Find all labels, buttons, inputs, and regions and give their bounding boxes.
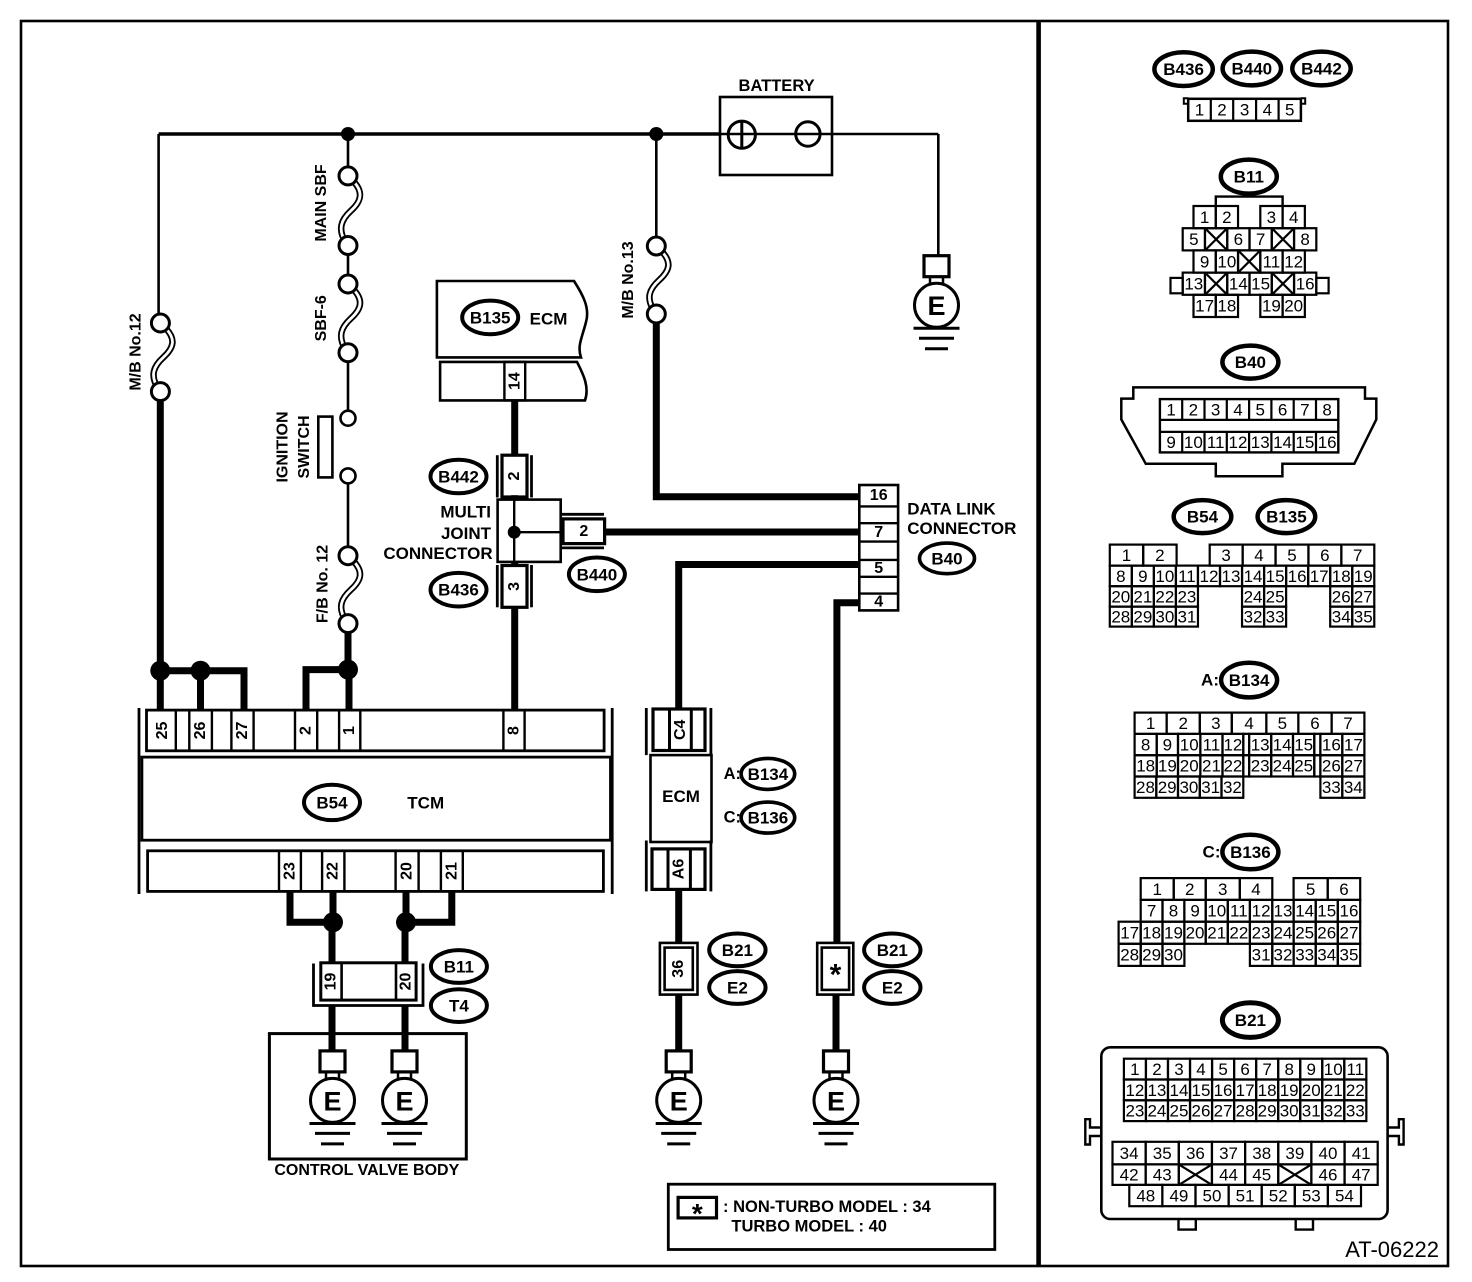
- svg-text:1: 1: [1195, 101, 1204, 120]
- svg-text:1: 1: [1130, 1060, 1139, 1079]
- svg-text:14: 14: [1273, 433, 1292, 452]
- svg-text:28: 28: [1111, 608, 1130, 627]
- svg-text:2: 2: [1155, 546, 1164, 565]
- svg-text:21: 21: [443, 862, 460, 880]
- svg-text:26: 26: [1332, 587, 1351, 606]
- svg-text:5: 5: [1278, 714, 1287, 733]
- svg-text:17: 17: [1195, 297, 1214, 316]
- svg-text:4: 4: [1289, 208, 1298, 227]
- svg-text:26: 26: [1317, 924, 1336, 943]
- svg-text:31: 31: [1252, 946, 1271, 965]
- svg-text:54: 54: [1335, 1186, 1354, 1205]
- svg-text:6: 6: [1339, 880, 1348, 899]
- svg-text:3: 3: [1221, 546, 1230, 565]
- svg-text:12: 12: [1223, 735, 1242, 754]
- svg-text:19: 19: [1280, 1081, 1299, 1100]
- svg-text:ECM: ECM: [530, 309, 568, 328]
- svg-text:8: 8: [1141, 735, 1150, 754]
- svg-text:SBF-6: SBF-6: [313, 295, 330, 341]
- svg-text:25: 25: [1294, 757, 1313, 776]
- svg-text:9: 9: [1138, 567, 1147, 586]
- svg-text:7: 7: [1262, 1060, 1271, 1079]
- svg-text:10: 10: [1217, 252, 1236, 271]
- svg-text:2: 2: [298, 726, 315, 735]
- svg-text:C4: C4: [672, 719, 689, 740]
- svg-text:1: 1: [1122, 546, 1131, 565]
- svg-text:5: 5: [1306, 880, 1315, 899]
- svg-text:26: 26: [1322, 757, 1341, 776]
- svg-text:E: E: [323, 1086, 341, 1116]
- svg-text:16: 16: [1318, 433, 1337, 452]
- svg-text:B136: B136: [748, 809, 789, 828]
- svg-text:2: 2: [1178, 714, 1187, 733]
- svg-text:35: 35: [1153, 1144, 1172, 1163]
- svg-text:1: 1: [341, 726, 358, 735]
- svg-text:19: 19: [1164, 924, 1183, 943]
- svg-text:17: 17: [1236, 1081, 1255, 1100]
- svg-text:19: 19: [323, 973, 340, 991]
- svg-text:30: 30: [1280, 1102, 1299, 1121]
- svg-text:7: 7: [1300, 400, 1309, 419]
- svg-text:14: 14: [506, 372, 523, 390]
- svg-text:13: 13: [1222, 567, 1241, 586]
- svg-text:20: 20: [1302, 1081, 1321, 1100]
- svg-text:29: 29: [1142, 946, 1161, 965]
- svg-text:B21: B21: [722, 941, 753, 960]
- svg-text:E2: E2: [882, 979, 903, 998]
- svg-text:8: 8: [1284, 1060, 1293, 1079]
- svg-text:T4: T4: [449, 997, 469, 1016]
- svg-text:20: 20: [399, 862, 416, 880]
- svg-text:5: 5: [1189, 230, 1198, 249]
- svg-text:B440: B440: [577, 565, 618, 584]
- svg-text:8: 8: [506, 726, 523, 735]
- svg-text:IGNITION: IGNITION: [275, 411, 292, 482]
- svg-text:18: 18: [1136, 757, 1155, 776]
- svg-text:19: 19: [1158, 757, 1177, 776]
- svg-text:4: 4: [1254, 546, 1263, 565]
- svg-text:32: 32: [1223, 778, 1242, 797]
- svg-text:9: 9: [1166, 433, 1175, 452]
- svg-text:14: 14: [1273, 735, 1292, 754]
- svg-text:CONNECTOR: CONNECTOR: [383, 544, 492, 563]
- svg-text:20: 20: [1284, 297, 1303, 316]
- svg-text:ECM: ECM: [662, 787, 700, 806]
- svg-text:9: 9: [1190, 902, 1199, 921]
- svg-text:36: 36: [670, 960, 687, 978]
- svg-text:20: 20: [1186, 924, 1205, 943]
- svg-text:2: 2: [579, 523, 588, 540]
- svg-text:E: E: [670, 1086, 688, 1116]
- svg-text:14: 14: [1170, 1081, 1189, 1100]
- svg-text:33: 33: [1322, 778, 1341, 797]
- svg-text:53: 53: [1302, 1186, 1321, 1205]
- svg-text:E: E: [927, 291, 945, 321]
- svg-text:2: 2: [1222, 208, 1231, 227]
- svg-text:17: 17: [1310, 567, 1329, 586]
- svg-text:4: 4: [1263, 101, 1272, 120]
- svg-text:15: 15: [1266, 567, 1285, 586]
- svg-text:20: 20: [1180, 757, 1199, 776]
- svg-text:1: 1: [1166, 400, 1175, 419]
- svg-text:B135: B135: [470, 308, 511, 327]
- svg-text:B54: B54: [1187, 508, 1219, 527]
- svg-text:9: 9: [1200, 252, 1209, 271]
- svg-text:47: 47: [1352, 1166, 1371, 1185]
- svg-text:18: 18: [1217, 297, 1236, 316]
- svg-text:30: 30: [1179, 778, 1198, 797]
- svg-text:13: 13: [1251, 433, 1270, 452]
- svg-text:24: 24: [1147, 1102, 1166, 1121]
- svg-text:31: 31: [1201, 778, 1220, 797]
- svg-text:7: 7: [1353, 546, 1362, 565]
- svg-text:16: 16: [1340, 902, 1359, 921]
- svg-text:36: 36: [1186, 1144, 1205, 1163]
- svg-text:24: 24: [1273, 924, 1292, 943]
- svg-text:29: 29: [1158, 778, 1177, 797]
- svg-text:9: 9: [1306, 1060, 1315, 1079]
- svg-text:7: 7: [874, 524, 883, 541]
- svg-text:25: 25: [1295, 924, 1314, 943]
- svg-text:6: 6: [1278, 400, 1287, 419]
- svg-text:24: 24: [1273, 757, 1292, 776]
- svg-text:27: 27: [1344, 757, 1363, 776]
- svg-text:40: 40: [1319, 1144, 1338, 1163]
- svg-text:25: 25: [1170, 1102, 1189, 1121]
- svg-text:13: 13: [1147, 1081, 1166, 1100]
- svg-text:13: 13: [1251, 735, 1270, 754]
- svg-text:27: 27: [234, 722, 251, 740]
- svg-text:28: 28: [1136, 778, 1155, 797]
- svg-text:51: 51: [1236, 1186, 1255, 1205]
- svg-text:11: 11: [1203, 735, 1221, 754]
- svg-text:45: 45: [1252, 1166, 1271, 1185]
- svg-text:12: 12: [1252, 902, 1271, 921]
- svg-text:43: 43: [1153, 1166, 1172, 1185]
- svg-text:4: 4: [1251, 880, 1260, 899]
- svg-text:16: 16: [1322, 735, 1341, 754]
- svg-text:6: 6: [1234, 230, 1243, 249]
- svg-text:10: 10: [1207, 902, 1226, 921]
- svg-text:3: 3: [506, 582, 523, 591]
- svg-text:4: 4: [874, 594, 883, 611]
- svg-text:11: 11: [1230, 902, 1248, 921]
- svg-text:27: 27: [1340, 924, 1359, 943]
- svg-text:12: 12: [1284, 252, 1303, 271]
- svg-text:44: 44: [1219, 1166, 1238, 1185]
- svg-text:B11: B11: [444, 958, 474, 977]
- svg-text:A:: A:: [724, 765, 741, 783]
- svg-text:F/B No. 12: F/B No. 12: [314, 545, 331, 623]
- svg-text:B136: B136: [1230, 843, 1271, 862]
- svg-text:21: 21: [1324, 1081, 1343, 1100]
- svg-text:B40: B40: [931, 549, 962, 568]
- svg-text:15: 15: [1251, 275, 1270, 294]
- svg-text:E: E: [395, 1086, 413, 1116]
- svg-text:32: 32: [1244, 608, 1263, 627]
- svg-text:35: 35: [1340, 946, 1359, 965]
- svg-text:48: 48: [1136, 1186, 1155, 1205]
- svg-text:15: 15: [1294, 735, 1313, 754]
- svg-text:A:: A:: [1201, 671, 1219, 690]
- svg-text:1: 1: [1200, 208, 1209, 227]
- svg-text:B135: B135: [1266, 508, 1307, 527]
- svg-text:: NON-TURBO MODEL : 34: : NON-TURBO MODEL : 34: [723, 1198, 932, 1216]
- svg-text:34: 34: [1332, 608, 1351, 627]
- svg-text:22: 22: [1346, 1081, 1365, 1100]
- svg-text:35: 35: [1354, 608, 1373, 627]
- svg-text:14: 14: [1229, 275, 1248, 294]
- svg-text:*: *: [692, 1198, 703, 1229]
- svg-text:B11: B11: [1234, 168, 1264, 187]
- svg-text:17: 17: [1120, 924, 1139, 943]
- svg-text:15: 15: [1295, 433, 1314, 452]
- svg-text:AT-06222: AT-06222: [1345, 1237, 1439, 1262]
- svg-text:22: 22: [325, 862, 342, 880]
- svg-text:E: E: [827, 1086, 845, 1116]
- svg-text:8: 8: [1169, 902, 1178, 921]
- svg-text:B134: B134: [748, 765, 789, 784]
- svg-text:24: 24: [1244, 587, 1263, 606]
- svg-text:5: 5: [1287, 546, 1296, 565]
- svg-text:15: 15: [1192, 1081, 1211, 1100]
- svg-text:1: 1: [1152, 880, 1161, 899]
- svg-text:32: 32: [1273, 946, 1292, 965]
- svg-text:49: 49: [1169, 1186, 1188, 1205]
- svg-text:28: 28: [1120, 946, 1139, 965]
- svg-text:MAIN SBF: MAIN SBF: [313, 164, 330, 242]
- svg-text:11: 11: [1207, 433, 1225, 452]
- svg-text:22: 22: [1229, 924, 1248, 943]
- svg-text:5: 5: [1256, 400, 1265, 419]
- svg-text:10: 10: [1324, 1060, 1343, 1079]
- svg-text:3: 3: [1267, 208, 1276, 227]
- svg-text:13: 13: [1273, 902, 1292, 921]
- svg-text:DATA LINK: DATA LINK: [907, 499, 996, 518]
- svg-text:19: 19: [1262, 297, 1281, 316]
- svg-text:10: 10: [1155, 567, 1174, 586]
- svg-text:C:: C:: [724, 809, 741, 827]
- svg-text:4: 4: [1196, 1060, 1205, 1079]
- svg-text:3: 3: [1218, 880, 1227, 899]
- svg-text:18: 18: [1142, 924, 1161, 943]
- svg-text:26: 26: [1192, 1102, 1211, 1121]
- svg-text:39: 39: [1285, 1144, 1304, 1163]
- svg-text:3: 3: [1211, 714, 1220, 733]
- svg-text:M/B No.12: M/B No.12: [127, 313, 144, 390]
- svg-text:31: 31: [1302, 1102, 1321, 1121]
- svg-text:E2: E2: [727, 979, 748, 998]
- svg-text:2: 2: [506, 471, 523, 480]
- svg-text:23: 23: [1125, 1102, 1144, 1121]
- svg-text:7: 7: [1147, 902, 1156, 921]
- svg-text:TURBO MODEL : 40: TURBO MODEL : 40: [731, 1217, 887, 1235]
- svg-text:8: 8: [1322, 400, 1331, 419]
- svg-text:B40: B40: [1235, 353, 1266, 372]
- svg-text:11: 11: [1263, 252, 1281, 271]
- svg-text:C:: C:: [1203, 843, 1221, 862]
- svg-text:10: 10: [1180, 735, 1199, 754]
- svg-text:18: 18: [1332, 567, 1351, 586]
- svg-text:16: 16: [1214, 1081, 1233, 1100]
- svg-text:B21: B21: [1235, 1011, 1266, 1030]
- svg-text:14: 14: [1295, 902, 1314, 921]
- svg-text:12: 12: [1125, 1081, 1144, 1100]
- svg-text:41: 41: [1352, 1144, 1371, 1163]
- svg-text:17: 17: [1344, 735, 1363, 754]
- svg-text:23: 23: [1177, 587, 1196, 606]
- svg-text:2: 2: [1185, 880, 1194, 899]
- svg-text:20: 20: [398, 973, 415, 991]
- svg-text:50: 50: [1203, 1186, 1222, 1205]
- svg-text:32: 32: [1324, 1102, 1343, 1121]
- svg-text:JOINT: JOINT: [441, 524, 492, 543]
- svg-text:2: 2: [1217, 101, 1226, 120]
- svg-text:2: 2: [1152, 1060, 1161, 1079]
- svg-text:12: 12: [1199, 567, 1218, 586]
- svg-text:5: 5: [874, 560, 883, 577]
- svg-text:3: 3: [1174, 1060, 1183, 1079]
- svg-text:38: 38: [1252, 1144, 1271, 1163]
- svg-text:8: 8: [1116, 567, 1125, 586]
- svg-text:25: 25: [1266, 587, 1285, 606]
- svg-text:21: 21: [1133, 587, 1152, 606]
- svg-text:M/B No.13: M/B No.13: [620, 241, 637, 318]
- svg-text:SWITCH: SWITCH: [296, 415, 313, 478]
- svg-text:6: 6: [1240, 1060, 1249, 1079]
- svg-text:46: 46: [1319, 1166, 1338, 1185]
- svg-text:16: 16: [870, 487, 888, 504]
- svg-text:CONTROL VALVE BODY: CONTROL VALVE BODY: [274, 1162, 459, 1179]
- svg-text:11: 11: [1178, 567, 1196, 586]
- svg-text:21: 21: [1202, 757, 1221, 776]
- svg-text:12: 12: [1228, 433, 1247, 452]
- svg-text:30: 30: [1155, 608, 1174, 627]
- svg-text:23: 23: [1252, 924, 1271, 943]
- svg-text:19: 19: [1354, 567, 1373, 586]
- svg-text:11: 11: [1346, 1060, 1364, 1079]
- svg-text:13: 13: [1184, 275, 1203, 294]
- svg-text:8: 8: [1300, 230, 1309, 249]
- svg-text:16: 16: [1296, 275, 1315, 294]
- svg-text:2: 2: [1189, 400, 1198, 419]
- svg-text:30: 30: [1164, 946, 1183, 965]
- svg-text:5: 5: [1218, 1060, 1227, 1079]
- svg-text:28: 28: [1236, 1102, 1255, 1121]
- svg-text:TCM: TCM: [407, 794, 444, 813]
- svg-text:14: 14: [1244, 567, 1263, 586]
- svg-text:37: 37: [1219, 1144, 1238, 1163]
- svg-text:B440: B440: [1231, 60, 1272, 79]
- svg-text:4: 4: [1233, 400, 1242, 419]
- svg-text:1: 1: [1146, 714, 1155, 733]
- svg-text:B54: B54: [316, 793, 348, 812]
- svg-text:29: 29: [1133, 608, 1152, 627]
- svg-text:23: 23: [1251, 757, 1270, 776]
- svg-text:33: 33: [1295, 946, 1314, 965]
- svg-text:16: 16: [1288, 567, 1307, 586]
- svg-text:B442: B442: [1301, 60, 1342, 79]
- svg-text:26: 26: [192, 722, 209, 740]
- svg-text:B442: B442: [438, 468, 479, 487]
- svg-text:21: 21: [1207, 924, 1226, 943]
- svg-text:22: 22: [1155, 587, 1174, 606]
- svg-text:3: 3: [1211, 400, 1220, 419]
- svg-text:52: 52: [1269, 1186, 1288, 1205]
- svg-text:6: 6: [1320, 546, 1329, 565]
- svg-text:10: 10: [1184, 433, 1203, 452]
- svg-text:B436: B436: [438, 581, 479, 600]
- svg-text:34: 34: [1120, 1144, 1139, 1163]
- svg-text:15: 15: [1317, 902, 1336, 921]
- svg-text:*: *: [830, 958, 842, 991]
- svg-text:23: 23: [282, 862, 299, 880]
- svg-text:5: 5: [1285, 101, 1294, 120]
- svg-text:34: 34: [1317, 946, 1336, 965]
- svg-text:6: 6: [1310, 714, 1319, 733]
- svg-text:MULTI: MULTI: [440, 503, 491, 522]
- svg-text:9: 9: [1163, 735, 1172, 754]
- svg-text:BATTERY: BATTERY: [739, 77, 815, 95]
- svg-text:4: 4: [1244, 714, 1253, 733]
- svg-text:B21: B21: [877, 941, 908, 960]
- svg-text:25: 25: [154, 722, 171, 740]
- svg-text:31: 31: [1177, 608, 1196, 627]
- svg-text:A6: A6: [671, 859, 688, 880]
- svg-text:27: 27: [1214, 1102, 1233, 1121]
- svg-text:B134: B134: [1229, 671, 1270, 690]
- svg-text:18: 18: [1258, 1081, 1277, 1100]
- svg-text:22: 22: [1223, 757, 1242, 776]
- svg-text:33: 33: [1346, 1102, 1365, 1121]
- svg-text:27: 27: [1354, 587, 1373, 606]
- svg-text:42: 42: [1120, 1166, 1139, 1185]
- svg-text:34: 34: [1344, 778, 1363, 797]
- svg-text:CONNECTOR: CONNECTOR: [907, 519, 1016, 538]
- svg-text:20: 20: [1111, 587, 1130, 606]
- svg-text:33: 33: [1266, 608, 1285, 627]
- svg-text:3: 3: [1240, 101, 1249, 120]
- svg-text:7: 7: [1256, 230, 1265, 249]
- svg-text:7: 7: [1343, 714, 1352, 733]
- svg-text:B436: B436: [1163, 60, 1204, 79]
- svg-text:29: 29: [1258, 1102, 1277, 1121]
